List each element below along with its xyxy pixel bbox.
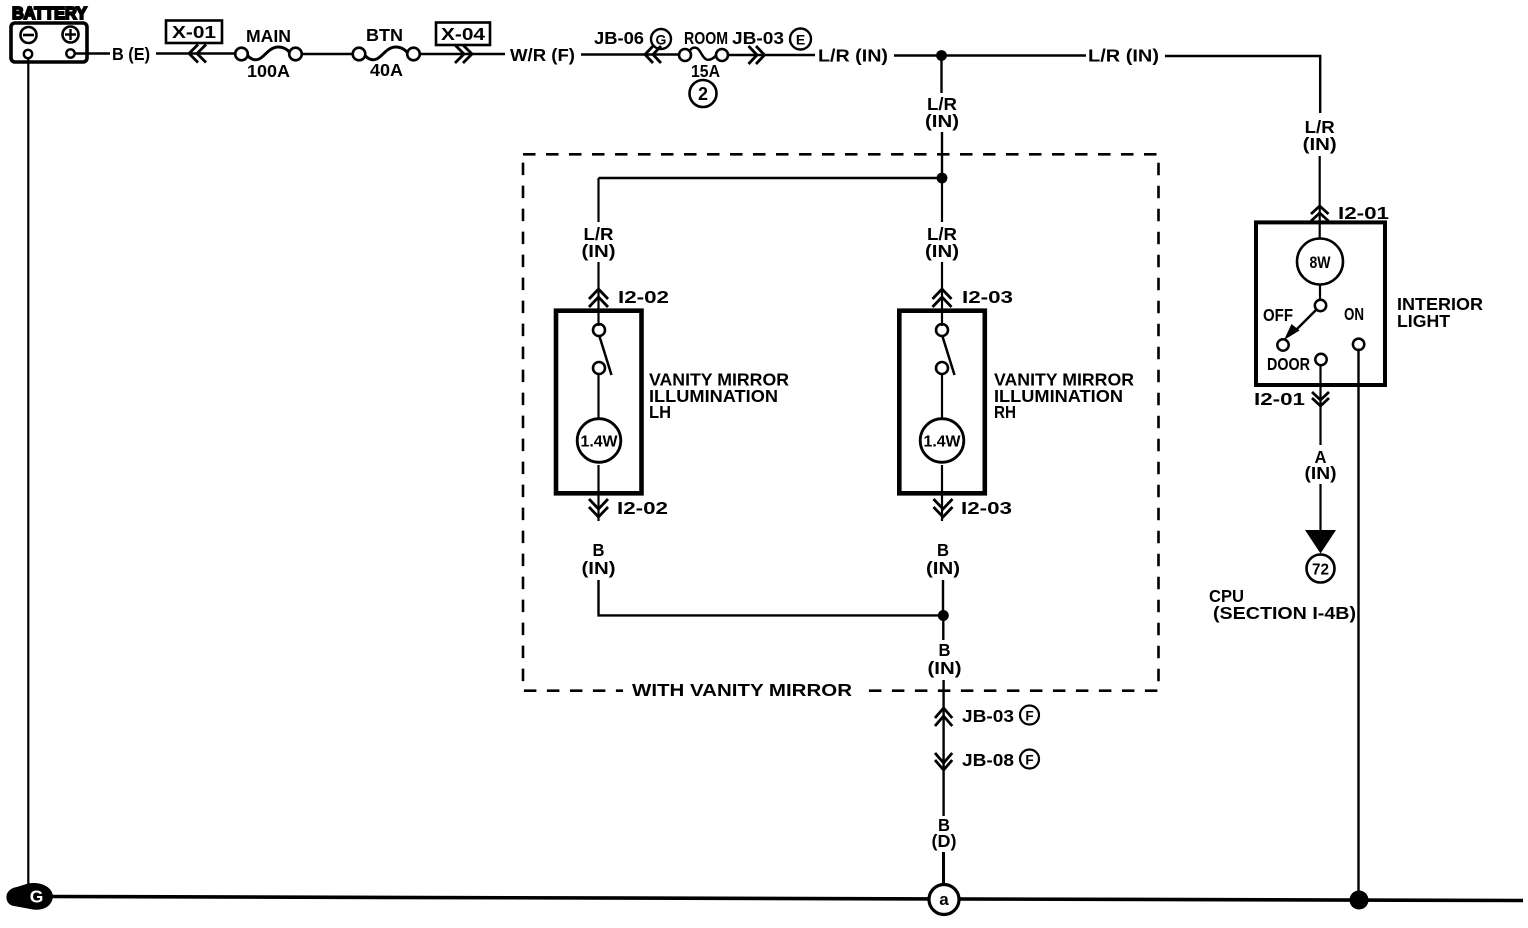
component label INTERIOR LIGHT (1397, 294, 1483, 331)
bulb 1.4W LH (577, 419, 621, 463)
junction block out connector JB-03 E (732, 28, 811, 64)
svg-text:40A: 40A (370, 60, 403, 80)
svg-text:(IN): (IN) (925, 241, 959, 261)
svg-text:1.4W: 1.4W (581, 434, 619, 451)
svg-text:B: B (937, 540, 949, 560)
ground point a (929, 885, 959, 915)
junction block in connector JB-06 G (594, 28, 671, 63)
svg-text:(IN): (IN) (1305, 463, 1337, 483)
circuit number 2 (690, 80, 717, 107)
wire bulb to box bottom RH (941, 465, 943, 521)
svg-text:LH: LH (649, 402, 671, 422)
svg-text:L/R (IN): L/R (IN) (1088, 46, 1159, 66)
bulb 1.4W RH (920, 419, 964, 463)
wire battery positive to B (E) (75, 52, 110, 55)
svg-text:(IN): (IN) (926, 558, 960, 578)
wire label B (IN) common (928, 640, 962, 678)
vanity mirror illumination LH box (556, 311, 642, 494)
wire ROOM fuse to L/R label (728, 54, 815, 56)
svg-text:MAIN: MAIN (246, 26, 291, 46)
wire switch to bulb RH (941, 373, 943, 420)
svg-text:(IN): (IN) (928, 658, 962, 678)
svg-text:B (E): B (E) (112, 44, 150, 64)
svg-text:(D): (D) (932, 831, 957, 851)
wire into dashed box (941, 132, 943, 178)
ground bus wire (46, 897, 1523, 901)
wire label L/R (IN) RH (925, 224, 959, 261)
wire DOOR terminal down (1319, 364, 1321, 445)
svg-text:2: 2 (698, 84, 708, 104)
wire label L/R (IN) vertical (925, 94, 959, 131)
wire to LH mirror (597, 178, 599, 222)
svg-text:DOOR: DOOR (1267, 354, 1310, 374)
fusible link BTN 40A (353, 25, 420, 80)
svg-text:(IN): (IN) (1303, 134, 1337, 154)
svg-text:100A: 100A (247, 61, 290, 81)
svg-text:W/R (F): W/R (F) (510, 45, 575, 65)
wire interior light branch down (1319, 56, 1321, 113)
arrow to CPU (1305, 530, 1336, 554)
connector JB-03 F (935, 706, 1039, 727)
svg-text:a: a (939, 890, 949, 909)
svg-text:RH: RH (994, 402, 1016, 422)
wire to interior light branch corner (1165, 55, 1321, 58)
wire into LH box (597, 262, 599, 326)
svg-text:BTN: BTN (366, 25, 403, 45)
wire battery negative down left side (27, 58, 29, 886)
svg-text:I2-01: I2-01 (1254, 389, 1305, 409)
svg-text:I2-03: I2-03 (962, 287, 1013, 307)
svg-text:ON: ON (1344, 304, 1364, 324)
switch RH (936, 324, 955, 375)
wire label B (IN) RH (926, 540, 960, 578)
wire to RH mirror (941, 178, 943, 222)
wire bulb to switch common (1319, 285, 1321, 301)
wire bulb to box bottom LH (597, 465, 599, 521)
svg-text:G: G (30, 887, 44, 907)
wire junction down to vanity box (940, 56, 942, 94)
wire W/R to ROOM fuse (581, 53, 679, 55)
svg-text:ROOM: ROOM (684, 28, 728, 48)
wire label L/R (IN) interior (1303, 117, 1337, 154)
svg-text:X-04: X-04 (441, 24, 485, 44)
wire branch inside dashed box (599, 177, 943, 179)
wire LH down and across to junction (599, 580, 944, 615)
wire into interior light box (1319, 156, 1321, 239)
wire RH down to junction (942, 580, 944, 615)
svg-text:I2-03: I2-03 (961, 498, 1012, 518)
svg-text:OFF: OFF (1263, 305, 1293, 325)
svg-text:JB-06: JB-06 (594, 28, 644, 48)
wire to CPU arrow (1319, 484, 1321, 532)
svg-text:LIGHT: LIGHT (1397, 311, 1450, 331)
svg-text:JB-03: JB-03 (962, 706, 1014, 726)
svg-text:I2-01: I2-01 (1338, 203, 1389, 223)
connector X-01 (166, 21, 222, 63)
junction node bottom (938, 610, 949, 621)
wire to ground point a (942, 852, 945, 885)
svg-text:JB-08: JB-08 (962, 750, 1014, 770)
circuit number 72 (1307, 555, 1335, 583)
vanity mirror illumination RH box (899, 311, 985, 494)
wire ON terminal down to ground bus (1357, 349, 1359, 899)
svg-text:G: G (656, 32, 667, 48)
svg-text:BATTERY: BATTERY (12, 3, 87, 23)
svg-text:(IN): (IN) (582, 558, 616, 578)
wire BTN to X-04 (420, 53, 505, 55)
svg-text:L/R (IN): L/R (IN) (818, 46, 888, 66)
battery B1 (11, 3, 87, 62)
connector I2-03 top (933, 287, 1014, 307)
wire label A (IN) (1305, 447, 1337, 483)
svg-text:B: B (939, 640, 951, 660)
switch LH (593, 324, 612, 375)
fusible link MAIN 100A (235, 26, 302, 81)
svg-text:15A: 15A (691, 61, 720, 81)
svg-text:F: F (1025, 709, 1033, 724)
svg-text:(IN): (IN) (582, 241, 616, 261)
svg-text:B: B (593, 540, 605, 560)
connector I2-01 bottom (1254, 389, 1329, 409)
svg-text:JB-03: JB-03 (732, 28, 784, 48)
component label VANITY MIRROR ILLUMINATION RH (994, 370, 1134, 423)
wire label B (IN) LH (582, 540, 616, 578)
dashed enclosure WITH VANITY MIRROR (523, 154, 1159, 690)
wire into RH box (941, 262, 943, 326)
svg-text:72: 72 (1312, 562, 1329, 579)
junction node on bus (1350, 891, 1369, 910)
svg-text:I2-02: I2-02 (617, 498, 668, 518)
interior light switch (1263, 300, 1364, 374)
component label CPU (SECTION I-4B) (1209, 586, 1356, 623)
wire label L/R (IN) LH (582, 224, 616, 261)
wire through dashed border down (942, 680, 944, 816)
svg-text:(SECTION I-4B): (SECTION I-4B) (1213, 603, 1356, 623)
svg-text:1.4W: 1.4W (924, 434, 962, 451)
svg-text:I2-02: I2-02 (618, 287, 669, 307)
component label VANITY MIRROR ILLUMINATION LH (649, 370, 789, 423)
svg-text:E: E (796, 32, 805, 48)
junction node (936, 50, 947, 61)
wire junction down (942, 615, 944, 640)
connector I2-02 top (589, 287, 669, 307)
connector JB-08 F (935, 750, 1039, 771)
connector I2-03 bottom (934, 498, 1013, 518)
wire L/R label to junction (894, 54, 1086, 56)
svg-text:X-01: X-01 (172, 22, 216, 42)
wire switch to bulb LH (597, 373, 599, 420)
wire label B (D) (932, 815, 957, 851)
junction node top (937, 173, 948, 184)
interior light box (1256, 222, 1385, 385)
fuse ROOM 15A (679, 28, 728, 81)
svg-text:F: F (1025, 753, 1033, 768)
connector X-04 (436, 23, 490, 64)
svg-text:WITH VANITY MIRROR: WITH VANITY MIRROR (632, 680, 852, 700)
bulb 8W (1297, 239, 1343, 285)
svg-text:8W: 8W (1310, 253, 1332, 272)
svg-text:(IN): (IN) (925, 111, 959, 131)
ground point G (6, 883, 52, 910)
wire MAIN to BTN (302, 53, 353, 55)
connector I2-01 top (1311, 203, 1389, 223)
wire B (E) to fusible link MAIN (156, 52, 235, 54)
connector I2-02 bottom (589, 498, 668, 518)
